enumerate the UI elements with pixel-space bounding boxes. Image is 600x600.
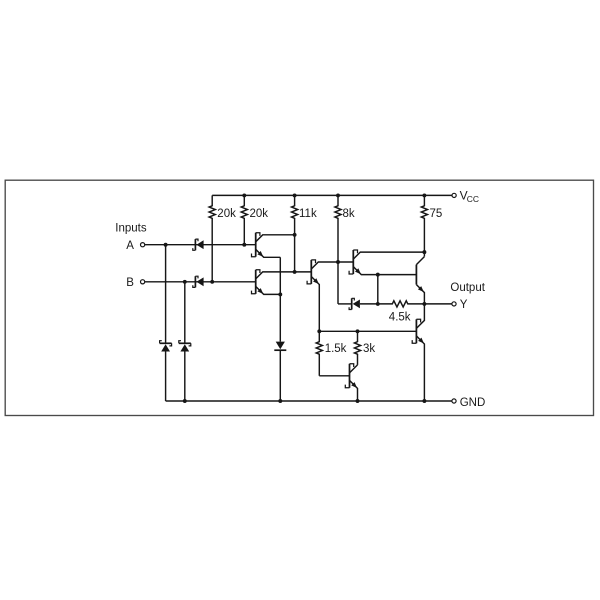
wire input B — [145, 281, 256, 283]
junction V45-4.5k — [376, 302, 380, 306]
junction gndB — [183, 399, 187, 403]
wire A-clamp vertical — [165, 245, 167, 401]
wire V45 vertical — [377, 275, 379, 304]
label R1 20k — [217, 208, 236, 220]
svg-text:1.5k: 1.5k — [325, 343, 347, 355]
resistor R1 20k — [209, 195, 215, 281]
wire Q7 collector — [350, 365, 358, 373]
wire Q7 emitter — [350, 380, 358, 401]
label B — [126, 277, 134, 289]
wire 4.5k line right — [408, 303, 452, 305]
transistor Q2 — [252, 270, 260, 294]
junction A-R2 — [242, 243, 246, 247]
wire Q3 collector — [311, 262, 353, 269]
wire Q2 collector — [256, 272, 312, 279]
wire 4.5k line mid — [360, 303, 392, 305]
wire Q6 emitter — [416, 336, 424, 401]
svg-text:GND: GND — [460, 397, 486, 409]
label R5 75 — [430, 208, 443, 220]
transistor Q3 — [307, 260, 315, 284]
resistor R7 1.5k — [316, 331, 349, 376]
diode D4 clamp B — [179, 341, 191, 352]
label R7 1.5k — [325, 343, 347, 355]
label Vcc — [460, 188, 479, 204]
label R4 8k — [343, 208, 355, 220]
wire node line — [319, 330, 416, 332]
junction rail-R3 — [293, 193, 297, 197]
resistor R8 3k — [354, 331, 360, 365]
label R2 20k — [250, 208, 269, 220]
label R3 11k — [299, 208, 317, 220]
svg-text:CC: CC — [467, 194, 479, 204]
junction output node — [422, 302, 426, 306]
wire Q5 collector — [416, 257, 424, 265]
junction Q3c-R4 — [336, 260, 340, 264]
frame border — [5, 180, 593, 415]
label R8 3k — [363, 343, 375, 355]
terminal GND — [452, 399, 456, 403]
diode D5 — [274, 342, 286, 351]
svg-text:3k: 3k — [363, 343, 375, 355]
label Inputs — [115, 223, 147, 235]
junction node-3k — [356, 329, 360, 333]
wire B-clamp vertical — [184, 282, 186, 401]
junction B-R1 — [210, 280, 214, 284]
svg-text:8k: 8k — [343, 208, 355, 220]
junction Q4c-R5 — [422, 250, 426, 254]
junction Q2c-R3 — [293, 270, 297, 274]
junction emitters — [278, 292, 282, 296]
svg-text:4.5k: 4.5k — [389, 311, 411, 323]
diode D6 schottky — [349, 298, 360, 309]
svg-text:Y: Y — [460, 299, 468, 311]
wire input A — [145, 244, 256, 246]
resistor R5 75 — [421, 195, 427, 256]
diode D2 schottky input B — [193, 276, 204, 287]
wire Q6 collector — [416, 304, 424, 329]
wire 4.5k line left — [338, 303, 352, 305]
wire Q4 emitter — [353, 267, 416, 275]
transistor Q1 — [252, 233, 260, 257]
junction Q1c-R3 — [293, 233, 297, 237]
diode D1 schottky input A — [193, 239, 204, 250]
svg-text:11k: 11k — [299, 208, 317, 220]
svg-text:Inputs: Inputs — [115, 223, 147, 235]
svg-text:B: B — [126, 277, 134, 289]
resistor R2 20k — [241, 195, 247, 244]
wire Q2 emitter — [256, 286, 281, 294]
junction Q7e-GND — [356, 399, 360, 403]
junction A-clamp — [164, 243, 168, 247]
wire Q5 emitter — [416, 285, 424, 304]
junction B-clamp — [183, 280, 187, 284]
junction Q6e-GND — [422, 399, 426, 403]
label GND — [460, 397, 486, 409]
terminal B — [141, 280, 145, 284]
wire Q1 collector — [256, 235, 295, 242]
svg-text:Output: Output — [450, 282, 485, 294]
wire Q3 emitter — [311, 277, 319, 332]
transistor Q6 — [412, 319, 420, 343]
resistor R3 11k — [292, 195, 298, 272]
junction rail-R2 — [242, 193, 246, 197]
label R6 4.5k — [389, 311, 411, 323]
terminal Vcc — [452, 193, 456, 197]
svg-text:75: 75 — [430, 208, 443, 220]
svg-text:A: A — [126, 240, 134, 252]
junction rail-R4 — [336, 193, 340, 197]
wire Vcc rail — [212, 194, 452, 196]
terminal A — [141, 243, 145, 247]
junction Q4e-V45 — [376, 273, 380, 277]
junction rail-R5 — [422, 193, 426, 197]
svg-text:20k: 20k — [217, 208, 236, 220]
wire Q1 emitter — [256, 249, 281, 257]
terminal Y — [452, 302, 456, 306]
transistor Q7 — [345, 364, 353, 388]
transistor Q4 — [349, 250, 357, 274]
wire ground line — [166, 400, 452, 402]
resistor R6 4.5k — [392, 301, 408, 307]
resistor R4 8k — [335, 195, 341, 304]
svg-text:20k: 20k — [250, 208, 269, 220]
label Y — [460, 299, 468, 311]
label A — [126, 240, 134, 252]
junction node-1.5k — [317, 329, 321, 333]
junction gndD5 — [278, 399, 282, 403]
diode D3 clamp A — [160, 341, 172, 352]
label Output — [450, 282, 485, 294]
wire emitter vertical — [279, 257, 281, 401]
transistor Q5 — [415, 265, 417, 285]
wire Q4 collector — [353, 252, 424, 259]
